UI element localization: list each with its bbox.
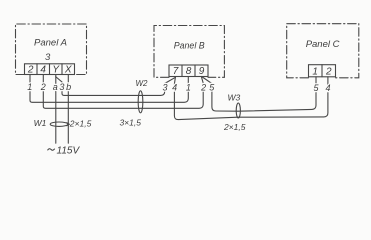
panel C enclosure (dash-dot boundary) [287, 24, 359, 78]
terminal strip in panel B (terminals 7,8,9) [169, 65, 208, 77]
svg-text:1: 1 [27, 82, 32, 92]
svg-text:3: 3 [162, 83, 167, 93]
svg-text:2: 2 [27, 65, 34, 76]
wire 3 : panel A terminal Y to panel B terminal 7 [56, 75, 176, 96]
svg-text:2: 2 [325, 66, 332, 77]
svg-text:1: 1 [186, 83, 191, 93]
svg-text:9: 9 [199, 66, 205, 77]
cable marker W1 ellipse (2x1,5 supply cable) [50, 122, 69, 126]
svg-text:8: 8 [186, 66, 192, 77]
svg-text:2×1,5: 2×1,5 [69, 119, 92, 129]
svg-text:7: 7 [173, 66, 179, 77]
wire a : supply core a to panel A terminal Y [55, 77, 57, 143]
svg-text:Panel C: Panel C [306, 39, 340, 50]
svg-text:b: b [66, 82, 71, 92]
svg-text:Panel A: Panel A [34, 37, 67, 48]
svg-text:a: a [53, 82, 58, 92]
cable marker W3 ellipse (2x1,5 cable) [236, 103, 240, 118]
panel B enclosure (dash-dot boundary) [154, 26, 224, 78]
svg-text:1: 1 [312, 66, 318, 77]
svg-text:4: 4 [40, 65, 46, 76]
terminal strip 3 in panel A (terminals 2,4,Y,X) [25, 64, 75, 75]
wire 5 : panel B terminal 9 to panel C terminal 1 [202, 77, 316, 112]
svg-text:2: 2 [40, 82, 46, 92]
svg-text:4: 4 [325, 83, 330, 93]
svg-text:3: 3 [59, 82, 64, 92]
svg-text:X: X [64, 65, 72, 76]
wire 4 : panel B terminal 7 to panel C terminal 2 [174, 77, 328, 120]
svg-text:W2: W2 [136, 79, 149, 88]
svg-text:115V: 115V [57, 146, 81, 156]
svg-text:4: 4 [172, 83, 177, 93]
wire b : supply core b to panel A terminal X [67, 75, 69, 144]
svg-text:W1: W1 [34, 118, 47, 128]
terminal strip in panel C (terminals 1,2) [309, 65, 336, 77]
cable marker W2 ellipse (3x1,5 cable) [138, 91, 143, 113]
supply label ~115V [48, 146, 81, 157]
panel A enclosure (dash-dot boundary) [16, 24, 87, 75]
svg-text:W3: W3 [228, 93, 241, 103]
svg-text:2×1,5: 2×1,5 [223, 122, 246, 132]
svg-text:3: 3 [45, 52, 51, 63]
wire 1 : panel A terminal 2 to panel B terminal 8 [30, 75, 188, 103]
svg-text:2: 2 [200, 83, 206, 93]
svg-text:3×1,5: 3×1,5 [119, 118, 141, 128]
svg-text:Panel B: Panel B [174, 40, 205, 50]
wire 2 : panel A terminal 4 to panel B terminal 9 [43, 75, 203, 109]
